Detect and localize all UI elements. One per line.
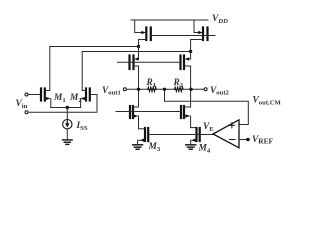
transistor P1 (PMOS current source, top-left) [135, 20, 151, 47]
svg-text:R2: R2 [173, 78, 184, 89]
wire: Vout1 to R1 [126, 88, 148, 90]
wire: R2 to Vout2 [183, 88, 204, 90]
transistor M4 (NMOS current sink, CMFB controlled) [191, 128, 200, 145]
output row: Vout1 terminal (open circle) [123, 88, 126, 91]
svg-text:M2: M2 [69, 93, 82, 104]
wire: gate line of N1/N2 (bias stub) [116, 111, 181, 113]
transistor N2 (NMOS cascode, right) [181, 89, 191, 127]
wire: op-amp - input to VREF [239, 139, 247, 141]
svg-text:VREF: VREF [252, 135, 274, 146]
node: Vout1 junction dot [137, 88, 140, 91]
svg-text:Vin: Vin [16, 99, 28, 110]
wire: VDD rail [131, 19, 208, 21]
ground (below M3) [133, 145, 143, 149]
wire: center tap to op-amp + input (Vout,CM sense) [165, 89, 249, 124]
node: tail junction dot [66, 106, 69, 109]
node: Vout2 junction dot [189, 88, 192, 91]
ground (below ISS) [63, 140, 73, 145]
resistor R2 [175, 87, 183, 91]
wire: Vin- to M2 gate [28, 95, 97, 113]
transistor P2 (PMOS current source, top-right) [191, 20, 208, 46]
transistor P3 (PMOS cascode, left) [130, 47, 139, 90]
svg-text:ISS: ISS [76, 121, 88, 132]
transistor P4 (PMOS cascode, right) [181, 52, 191, 90]
node: VREF terminal dot [246, 138, 250, 142]
ground (below M4) [186, 145, 196, 149]
wire: common source rail of M1/M2 [51, 107, 81, 109]
svg-text:M1: M1 [53, 93, 66, 104]
svg-text:Vout,CM: Vout,CM [253, 96, 282, 107]
wire: VE line (op-amp output to gates of M3/M4) [148, 134, 213, 136]
svg-text:Vout2: Vout2 [210, 86, 230, 97]
wire: M1 drain to folding node A [50, 47, 139, 91]
wire: M2 drain to folding node B [82, 52, 190, 91]
transistor M1 (NMOS input pair left) [41, 89, 51, 108]
wire: ISS to ground [66, 129, 68, 140]
resistor R1 [148, 87, 156, 91]
input terminal Vin- (open circle) [25, 111, 28, 114]
wire: tail node to current source [66, 108, 68, 120]
wire: R1 to R2 [156, 88, 174, 90]
op-amp U1 (CMFB error amplifier) [213, 120, 239, 148]
wire: Vin+ to M1 gate [28, 94, 41, 96]
transistor N1 (NMOS cascode, left) [130, 89, 139, 129]
node A (junction dot, left folding node) [137, 45, 140, 48]
svg-text:VE: VE [203, 122, 214, 133]
node: center tap junction dot [163, 88, 166, 91]
svg-text:M4: M4 [198, 144, 211, 155]
transistor M2 (NMOS input pair right, mirrored) [80, 89, 90, 108]
output terminal Vout2 (open circle) [204, 88, 207, 91]
input terminal Vin+ (open circle) [25, 93, 28, 96]
svg-text:M3: M3 [148, 142, 161, 153]
svg-text:VDD: VDD [212, 14, 228, 25]
current source ISS (circle with arrow) [63, 120, 72, 129]
wire: gate line of P3/P4 (bias stub) [118, 61, 181, 63]
node B (junction dot, right folding node) [189, 46, 192, 53]
wire: gate line of P1/P2 [151, 35, 215, 37]
transistor M3 (NMOS current sink, CMFB controlled) [138, 128, 149, 145]
svg-text:R1: R1 [146, 78, 157, 89]
svg-text:Vout1: Vout1 [102, 86, 121, 97]
